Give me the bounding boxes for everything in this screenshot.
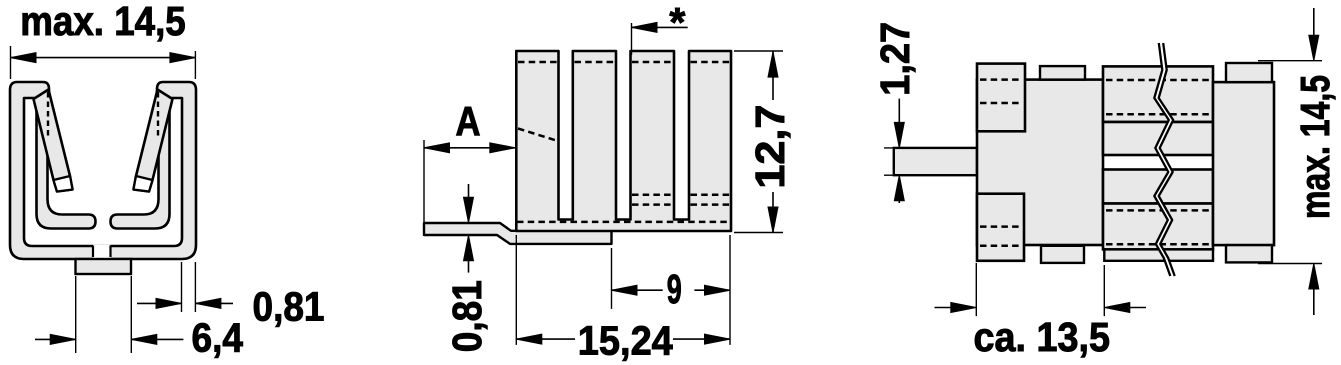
svg-text:1,27: 1,27 bbox=[872, 22, 918, 96]
svg-text:A: A bbox=[456, 98, 481, 144]
svg-text:0,81: 0,81 bbox=[253, 284, 325, 330]
svg-text:9: 9 bbox=[667, 266, 682, 312]
svg-text:12,7: 12,7 bbox=[747, 105, 793, 189]
svg-text:max. 14,5: max. 14,5 bbox=[20, 0, 186, 44]
svg-text:*: * bbox=[669, 0, 685, 45]
svg-text:0,81: 0,81 bbox=[444, 280, 490, 352]
svg-text:max. 14,5: max. 14,5 bbox=[1292, 75, 1338, 219]
svg-text:6,4: 6,4 bbox=[192, 315, 244, 361]
svg-text:ca. 13,5: ca. 13,5 bbox=[974, 314, 1111, 360]
svg-text:15,24: 15,24 bbox=[578, 318, 673, 364]
